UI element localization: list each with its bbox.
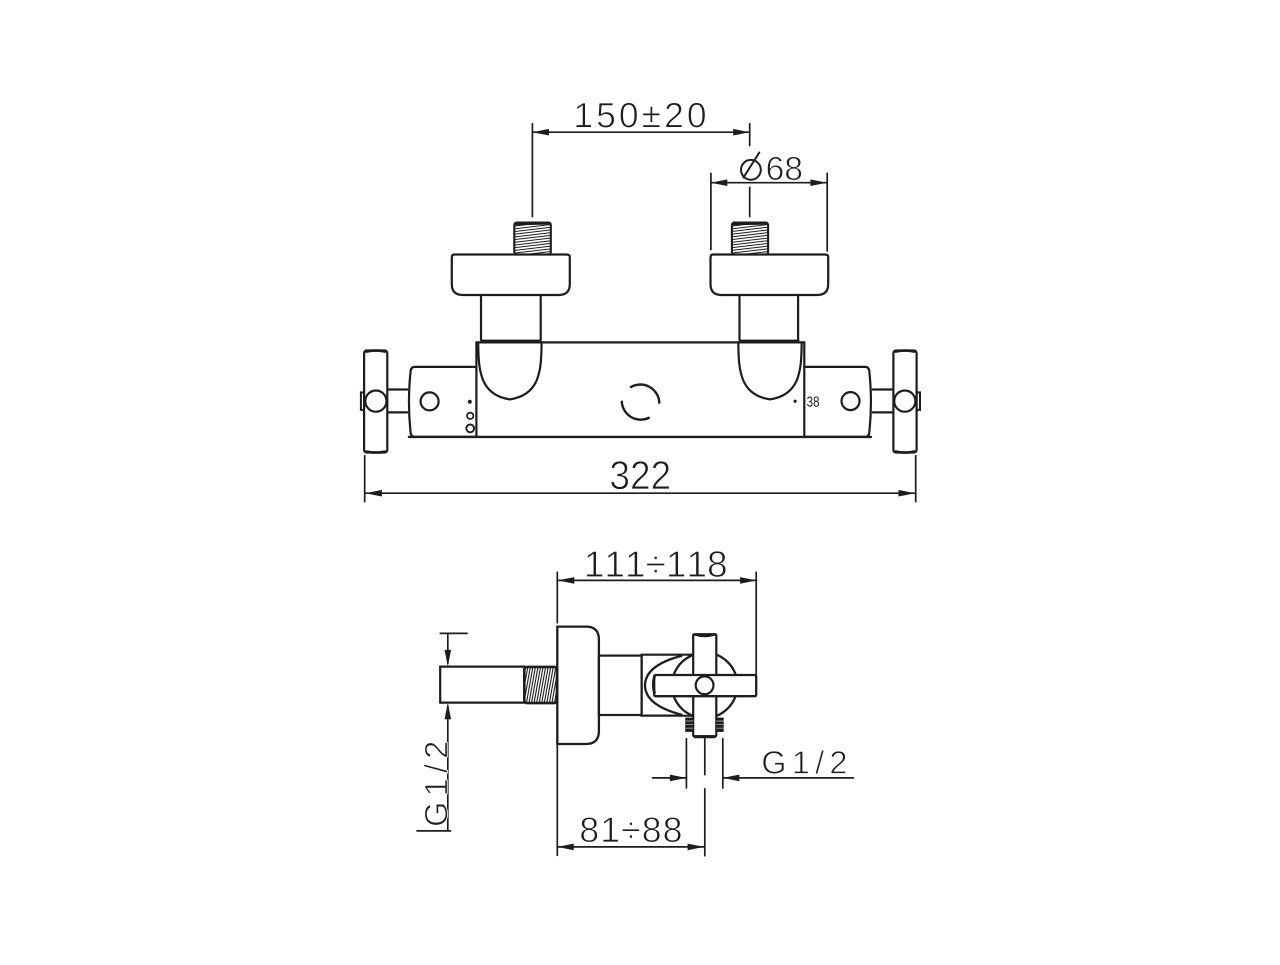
right inlet dome inside body — [738, 343, 801, 400]
valve body section B — [642, 655, 696, 716]
dimension 322 text — [611, 461, 669, 490]
extension line right of 322 — [915, 456, 917, 502]
G1/2 left: lower dimension line with up arrow — [447, 706, 449, 831]
right end cap screw circle — [842, 392, 860, 410]
extension line left of 150±20 — [531, 124, 533, 217]
cross handle center circle — [696, 676, 714, 694]
dimension 111÷118 text — [587, 551, 726, 577]
dimension 322 line with arrows — [365, 492, 915, 494]
left handle stem — [387, 388, 407, 390]
dimension 150±20 text — [576, 103, 705, 128]
dimension Ø68 line with arrows — [711, 182, 827, 184]
right handle hub circle — [894, 391, 915, 412]
right handle stem — [873, 388, 894, 390]
body left edge — [475, 342, 477, 437]
G1/2 outlet: left extension line — [685, 739, 687, 788]
G1/2 outlet label — [763, 750, 846, 774]
outlet center line — [704, 739, 706, 775]
rosette circle left arc — [672, 656, 691, 715]
extension line left of 111÷118 — [556, 572, 558, 623]
38 mark dot — [794, 400, 797, 403]
cross handle vertical bar — [693, 634, 716, 736]
left end cap screw circle — [421, 392, 439, 410]
center line of right inlet (lower) — [749, 187, 751, 216]
left inlet dome inside body — [478, 343, 541, 400]
dimension Ø68 symbol — [741, 153, 761, 180]
G1/2 left: bottom tick — [417, 830, 451, 832]
dimension Ø68 text — [767, 157, 801, 181]
outlet knurled nut left half — [685, 718, 724, 732]
right joint ring — [739, 340, 800, 343]
right handle far lug — [917, 392, 920, 410]
left threaded nipple (knurled) — [513, 222, 552, 262]
left handle bar — [364, 351, 387, 453]
dimension 81÷88 text — [581, 817, 681, 842]
central temperature dial arcs — [622, 385, 660, 420]
G1/2 outlet: right extension line — [722, 739, 724, 788]
body bottom edge — [409, 436, 871, 438]
pipe thread (side, knurled) — [519, 667, 561, 703]
extension line left of Ø68 — [710, 173, 712, 249]
handle rosette circle — [672, 653, 738, 719]
left escutcheon flange — [452, 255, 570, 296]
left riser tube — [480, 295, 482, 340]
left handle hub circle — [365, 391, 386, 412]
right handle bar — [893, 351, 916, 453]
left handle far lug — [361, 392, 364, 410]
outlet center line lower segment — [704, 789, 706, 856]
dimension 111÷118 line with arrows — [558, 579, 757, 581]
wall supply pipe — [440, 665, 525, 667]
extension line right of 150±20 (upper) — [749, 124, 751, 146]
three indicator dots — [468, 400, 472, 404]
right riser tube — [738, 295, 740, 340]
body top edge — [476, 341, 804, 343]
body right edge — [803, 342, 805, 437]
G1/2 left: top tick — [440, 632, 467, 634]
G1/2 left rotated label — [424, 742, 448, 825]
right escutcheon flange — [711, 255, 829, 296]
right threaded nipple (knurled) — [730, 222, 769, 262]
bell skirt profile — [645, 656, 691, 715]
G1/2 left: upper dimension line with down arrow — [447, 633, 449, 663]
dimension 81÷88 line with arrows — [557, 846, 704, 848]
wall escutcheon (side) — [557, 627, 599, 744]
label 38 — [807, 396, 819, 406]
outlet bottom face — [695, 735, 714, 738]
extension line left of 322 — [364, 456, 366, 502]
right end cap — [804, 367, 871, 437]
left joint ring — [480, 340, 541, 343]
rosette rim arc visible at left — [653, 676, 654, 692]
extension line right of 111÷118 — [755, 572, 757, 676]
valve body section A — [599, 656, 642, 715]
cross handle horizontal bar — [654, 675, 756, 696]
left end cap — [409, 367, 476, 437]
dimension 150±20 line with arrows — [532, 131, 749, 133]
extension line through escutcheon (81÷88 left) — [556, 744, 558, 855]
extension line right of Ø68 — [826, 173, 828, 251]
G1/2 outlet dimension arrows — [653, 777, 687, 779]
